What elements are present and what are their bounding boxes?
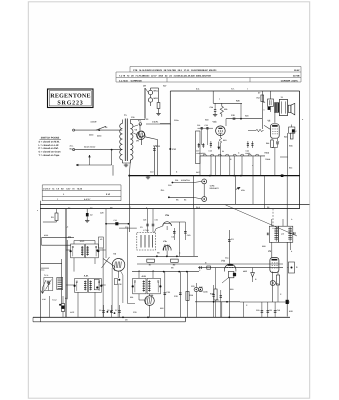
svg-text:C5: C5 bbox=[99, 309, 101, 312]
svg-text:H.T.: H.T. bbox=[231, 88, 235, 91]
svg-text:L = closed on L.W.: L = closed on L.W. bbox=[39, 144, 60, 147]
svg-text:T.C.1: T.C.1 bbox=[40, 268, 44, 271]
svg-text:S6: S6 bbox=[267, 206, 269, 209]
svg-text:CURSOR 232TC: CURSOR 232TC bbox=[281, 79, 299, 82]
svg-text:C13: C13 bbox=[150, 171, 153, 174]
svg-text:C7B 5L.5LF45Z13.13Z63Z8 26: C7B 5L.5LF45Z13.13Z63Z8 26.7L5L76B 25.3 … bbox=[133, 69, 217, 72]
svg-text:T.C.2: T.C.2 bbox=[52, 299, 56, 302]
svg-text:C9: C9 bbox=[125, 318, 127, 321]
svg-text:B9: B9 bbox=[110, 207, 112, 210]
svg-text:R18: R18 bbox=[262, 245, 265, 248]
svg-text:SOCKETS: SOCKETS bbox=[210, 187, 220, 190]
svg-text:C8: C8 bbox=[269, 309, 271, 312]
svg-text:T = closed on Tape: T = closed on Tape bbox=[39, 154, 61, 157]
svg-text:C30: C30 bbox=[131, 116, 134, 119]
svg-text:C16: C16 bbox=[114, 219, 117, 222]
svg-text:T2: T2 bbox=[281, 96, 283, 99]
svg-text:5.4.3.7: 5.4.3.7 bbox=[84, 198, 91, 201]
svg-text:C30: C30 bbox=[155, 219, 158, 222]
svg-text:R5: R5 bbox=[176, 199, 178, 202]
svg-text:W.C.: W.C. bbox=[196, 171, 201, 174]
svg-text:C3: C3 bbox=[140, 226, 142, 229]
svg-text:R19: R19 bbox=[205, 119, 208, 122]
svg-text:V3a: V3a bbox=[165, 214, 170, 217]
svg-text:B.C.: B.C. bbox=[196, 88, 200, 91]
svg-text:L10: L10 bbox=[281, 233, 284, 236]
svg-text:C33: C33 bbox=[133, 311, 136, 314]
svg-text:R9: R9 bbox=[171, 267, 173, 270]
svg-text:P.L.: P.L. bbox=[277, 283, 281, 286]
svg-text:W: W bbox=[222, 150, 224, 153]
svg-text:P = closed on Ref.: P = closed on Ref. bbox=[39, 147, 59, 150]
svg-text:V2: V2 bbox=[100, 238, 102, 241]
svg-text:V4a: V4a bbox=[221, 260, 226, 263]
svg-text:R12: R12 bbox=[160, 307, 163, 310]
svg-text:R34: R34 bbox=[289, 166, 292, 169]
svg-text:C32: C32 bbox=[118, 283, 121, 286]
svg-text:C7: C7 bbox=[115, 309, 117, 312]
svg-text:S4.5: S4.5 bbox=[196, 206, 200, 209]
svg-text:C19: C19 bbox=[256, 309, 259, 312]
svg-text:R11: R11 bbox=[130, 296, 133, 299]
svg-text:R17: R17 bbox=[257, 97, 260, 100]
svg-text:C16: C16 bbox=[197, 124, 200, 127]
svg-text:C18: C18 bbox=[209, 150, 212, 153]
svg-text:7.1 78 72 26 71.75.4B63Z: 7.1 78 72 26 71.75.4B63Z3 22 37 38.B 4Z … bbox=[119, 74, 211, 77]
svg-text:A.M.: A.M. bbox=[84, 275, 89, 278]
svg-text:Mains: Mains bbox=[70, 148, 77, 151]
svg-text:A.C.: A.C. bbox=[70, 145, 74, 148]
svg-text:on/off: on/off bbox=[91, 121, 97, 124]
svg-text:19.4Z: 19.4Z bbox=[293, 69, 300, 72]
svg-text:3Z73B: 3Z73B bbox=[292, 74, 300, 77]
svg-text:R23: R23 bbox=[245, 115, 248, 118]
svg-text:S = closed on M.W.: S = closed on M.W. bbox=[39, 141, 60, 144]
svg-text:C11: C11 bbox=[175, 179, 178, 182]
svg-text:S2: S2 bbox=[146, 118, 148, 121]
svg-text:L.W.: L.W. bbox=[42, 298, 46, 301]
svg-text:R24: R24 bbox=[284, 136, 287, 139]
svg-text:Gram motor: Gram motor bbox=[84, 146, 96, 149]
svg-text:C23: C23 bbox=[191, 285, 194, 288]
svg-text:P.U.: P.U. bbox=[161, 189, 165, 192]
svg-text:A1: A1 bbox=[68, 207, 70, 210]
svg-text:V.D.R.: V.D.R. bbox=[152, 121, 159, 124]
svg-text:R13: R13 bbox=[223, 139, 226, 142]
svg-text:L6: L6 bbox=[152, 270, 154, 273]
svg-text:A.M.: A.M. bbox=[141, 275, 146, 278]
svg-text:MR3: MR3 bbox=[243, 270, 247, 273]
svg-text:C25: C25 bbox=[143, 219, 146, 222]
svg-text:R4: R4 bbox=[184, 199, 186, 202]
svg-text:C6: C6 bbox=[107, 309, 109, 312]
svg-text:REGENTONE: REGENTONE bbox=[50, 94, 90, 100]
svg-text:R27: R27 bbox=[163, 85, 166, 88]
svg-text:L5: L5 bbox=[138, 270, 140, 273]
svg-text:R8: R8 bbox=[157, 252, 159, 255]
svg-text:V3b: V3b bbox=[213, 121, 218, 124]
svg-text:M.W.: M.W. bbox=[44, 234, 49, 237]
svg-text:SCRATCH: SCRATCH bbox=[181, 179, 190, 182]
svg-text:F.S.: F.S. bbox=[138, 120, 142, 123]
svg-text:AGC: AGC bbox=[70, 311, 75, 314]
svg-text:SRG223: SRG223 bbox=[57, 101, 83, 107]
svg-text:C27: C27 bbox=[276, 141, 279, 144]
svg-text:3.1.7Z34 GARRDDD: 3.1.7Z34 GARRDDD bbox=[119, 79, 142, 82]
svg-text:C31: C31 bbox=[125, 226, 128, 229]
svg-text:L9: L9 bbox=[263, 101, 265, 104]
svg-text:G = closed on Gram: G = closed on Gram bbox=[39, 151, 61, 154]
svg-text:C19: C19 bbox=[205, 124, 208, 127]
svg-text:S6: S6 bbox=[105, 126, 107, 129]
svg-text:L3: L3 bbox=[66, 226, 68, 229]
svg-text:C2: C2 bbox=[90, 214, 92, 217]
svg-text:R22: R22 bbox=[266, 142, 269, 145]
svg-text:C29: C29 bbox=[100, 212, 103, 215]
svg-text:R21: R21 bbox=[224, 108, 227, 111]
svg-text:C16: C16 bbox=[277, 309, 280, 312]
svg-text:C24B: C24B bbox=[203, 290, 208, 293]
svg-text:L7 L8: L7 L8 bbox=[143, 229, 149, 232]
svg-text:S3: S3 bbox=[120, 258, 122, 261]
svg-text:T.C.2: T.C.2 bbox=[44, 274, 48, 277]
svg-text:C10: C10 bbox=[168, 184, 171, 187]
svg-text:TONE: TONE bbox=[265, 158, 271, 161]
svg-text:V.175.V 74 7.8 92 6: V.175.V 74 7.8 92 6.37 73 76.25 bbox=[43, 187, 83, 190]
svg-text:R10: R10 bbox=[230, 288, 233, 291]
svg-text:A5: A5 bbox=[90, 207, 92, 210]
svg-text:TREB: TREB bbox=[264, 152, 270, 155]
